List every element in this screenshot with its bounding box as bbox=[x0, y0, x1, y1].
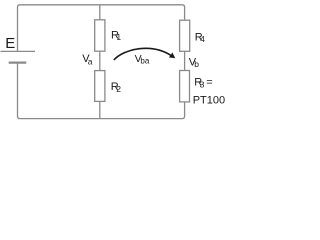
wire: bottom edge + left lower + right lower bbox=[18, 63, 185, 119]
wire: middle branch between R1 and R2 (node Va) bbox=[99, 51, 101, 70]
svg-text:4: 4 bbox=[200, 34, 205, 44]
svg-text:E: E bbox=[5, 35, 15, 52]
svg-text:2: 2 bbox=[116, 84, 121, 94]
wire: right branch between R4 and R3 (node Vb) bbox=[184, 51, 186, 70]
arrowhead of Vba arrow bbox=[169, 52, 176, 58]
resistor R1 bbox=[95, 20, 105, 51]
resistor R4 bbox=[180, 20, 190, 51]
svg-text:a: a bbox=[88, 56, 93, 66]
arrow Vba (curved) bbox=[114, 48, 172, 60]
battery E short plate bbox=[9, 61, 27, 63]
svg-text:1: 1 bbox=[116, 32, 121, 42]
resistor R2 bbox=[95, 71, 105, 102]
battery E long plate bbox=[1, 50, 36, 52]
wire: middle branch upper bbox=[99, 5, 101, 20]
svg-text:PT100: PT100 bbox=[193, 95, 225, 107]
svg-text:3: 3 bbox=[200, 80, 205, 90]
wire: top edge + left upper + right upper bbox=[18, 5, 185, 51]
wire: middle branch lower bbox=[99, 101, 101, 118]
svg-text:b: b bbox=[194, 59, 199, 69]
svg-text:ba: ba bbox=[140, 57, 149, 66]
resistor R3 (PT100) bbox=[180, 71, 190, 102]
svg-text:=: = bbox=[206, 76, 212, 88]
